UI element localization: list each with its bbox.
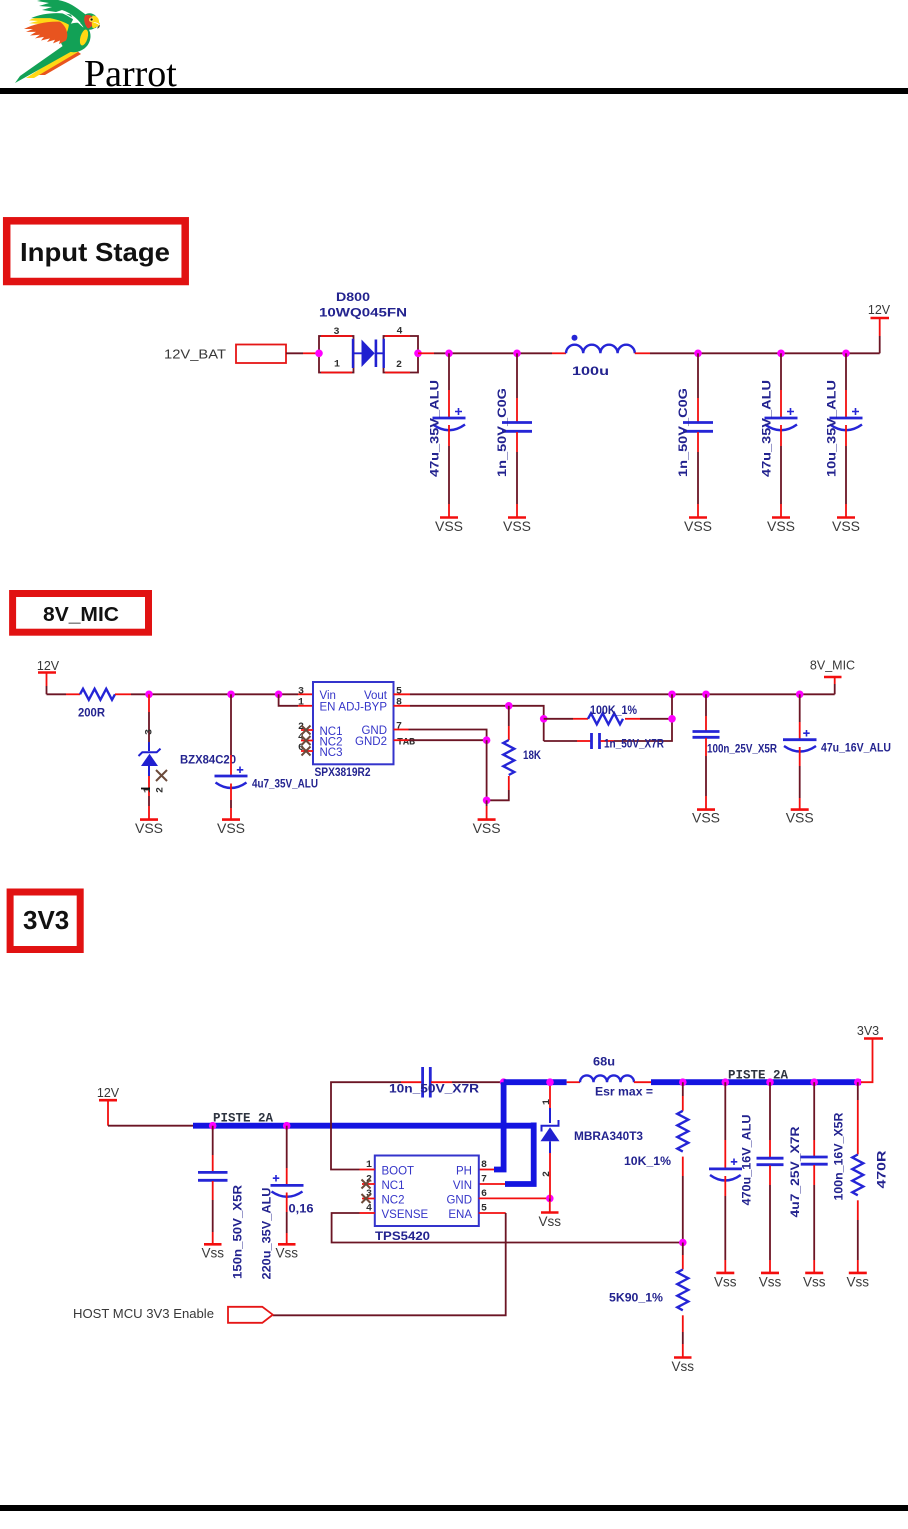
svg-text:NC1: NC1 bbox=[382, 1180, 405, 1192]
capacitor 1n_50V_C0G (second) bbox=[678, 353, 713, 517]
pin 6 GND stub bbox=[479, 1197, 497, 1199]
svg-text:5: 5 bbox=[396, 686, 402, 697]
svg-text:1n_50V_C0G: 1n_50V_C0G bbox=[678, 388, 690, 477]
node dots at D800 bbox=[315, 350, 323, 358]
svg-text:VIN: VIN bbox=[453, 1180, 472, 1192]
wire L800 to 12V port bbox=[635, 352, 650, 354]
svg-text:4u7_25V_X7R: 4u7_25V_X7R bbox=[790, 1126, 802, 1218]
ground Vss bbox=[714, 1273, 737, 1290]
tail green blade bbox=[15, 43, 74, 83]
capacitor 10u_35V_ALU bbox=[827, 353, 863, 517]
svg-text:200R: 200R bbox=[78, 708, 106, 720]
svg-text:150n_50V_X5R: 150n_50V_X5R bbox=[233, 1184, 245, 1279]
eye bbox=[89, 17, 94, 22]
svg-text:2: 2 bbox=[156, 787, 167, 793]
ground VSS bbox=[684, 518, 712, 535]
svg-text:MBRA340T3: MBRA340T3 bbox=[574, 1131, 643, 1143]
beak bbox=[94, 21, 100, 27]
svg-text:5K90_1%: 5K90_1% bbox=[609, 1293, 663, 1305]
inductor 68u bbox=[567, 1057, 654, 1099]
header rule bbox=[0, 88, 908, 94]
svg-text:8V_MIC: 8V_MIC bbox=[810, 659, 855, 673]
ground VSS bbox=[786, 810, 814, 826]
svg-text:Vin: Vin bbox=[320, 690, 336, 702]
resistor 200R bbox=[78, 689, 115, 720]
capacitor 47u_35V_ALU (second) bbox=[762, 353, 798, 517]
port HOST MCU 3V3 Enable bbox=[73, 1307, 273, 1323]
port 8V_MIC bbox=[810, 659, 855, 695]
svg-text:4u7_35V_ALU: 4u7_35V_ALU bbox=[252, 779, 318, 791]
svg-text:8: 8 bbox=[481, 1160, 487, 1171]
capacitor 1n_50V_X7R bbox=[544, 719, 672, 751]
pin 4 VSENSE stub bbox=[360, 1212, 375, 1214]
ground VSS bbox=[692, 810, 720, 826]
wire 3V3 thick rail bbox=[651, 1079, 861, 1085]
svg-text:68u: 68u bbox=[593, 1057, 615, 1069]
svg-text:Vss: Vss bbox=[714, 1275, 737, 1290]
wire 12V to PISTE rail bbox=[108, 1125, 193, 1127]
svg-text:D800: D800 bbox=[336, 292, 370, 304]
ground VSS bbox=[832, 518, 860, 535]
svg-text:VSS: VSS bbox=[135, 820, 163, 836]
footer rule bbox=[0, 1505, 908, 1511]
section title 8V_MIC bbox=[13, 594, 149, 633]
wire VSENSE feedback bbox=[332, 1213, 684, 1243]
wire D800 to L800 bbox=[418, 352, 434, 354]
svg-text:PISTE 2A: PISTE 2A bbox=[213, 1112, 274, 1126]
ground VSS bbox=[767, 518, 795, 535]
belly yellow patch bbox=[78, 29, 89, 47]
capacitor 47u_35V_ALU (first) bbox=[430, 353, 466, 517]
pin 5 ENA stub bbox=[479, 1212, 506, 1214]
svg-text:1n_50V_C0G: 1n_50V_C0G bbox=[497, 388, 509, 477]
svg-text:8V_MIC: 8V_MIC bbox=[43, 604, 119, 626]
svg-text:4: 4 bbox=[397, 327, 403, 338]
svg-text:1: 1 bbox=[298, 698, 304, 709]
svg-text:NC2: NC2 bbox=[382, 1194, 405, 1206]
svg-text:VSS: VSS bbox=[684, 518, 712, 534]
ground VSS bbox=[135, 820, 163, 836]
face yellow patch bbox=[92, 16, 99, 29]
head green bbox=[81, 13, 98, 30]
op-amp U: regulator SPX3819R2 bbox=[298, 682, 415, 779]
wing separation white line bbox=[60, 12, 84, 28]
body green bbox=[60, 23, 91, 52]
wire GND pin 7 bbox=[394, 729, 409, 731]
ground Vss bbox=[201, 1244, 224, 1260]
wire Vout (8V_MIC net) bbox=[394, 693, 411, 695]
capacitor 4u7_35V_ALU bbox=[215, 694, 319, 819]
svg-text:TAB: TAB bbox=[397, 737, 415, 748]
svg-text:VSS: VSS bbox=[435, 518, 463, 534]
capacitor 4u7_25V_X7R bbox=[757, 1082, 803, 1273]
svg-text:ENA: ENA bbox=[448, 1209, 472, 1221]
zener diode BZX84C20 bbox=[139, 694, 237, 819]
svg-text:10WQ045FN: 10WQ045FN bbox=[319, 308, 407, 320]
ground Vss bbox=[759, 1273, 782, 1290]
svg-text:8: 8 bbox=[396, 698, 402, 709]
wire GND to diode anode bbox=[497, 1197, 550, 1199]
svg-text:ADJ-BYP: ADJ-BYP bbox=[338, 701, 387, 713]
upper wing green bbox=[37, 0, 96, 29]
svg-text:47u_35V_ALU: 47u_35V_ALU bbox=[762, 380, 774, 477]
svg-text:GND2: GND2 bbox=[355, 736, 387, 748]
svg-text:TPS5420: TPS5420 bbox=[375, 1231, 430, 1243]
wire ADJ-BYP bbox=[394, 705, 411, 707]
wire 200R to SPX3819 Vin bbox=[115, 693, 131, 695]
svg-text:HOST MCU 3V3 Enable: HOST MCU 3V3 Enable bbox=[73, 1307, 214, 1321]
port 12V bbox=[37, 659, 60, 694]
svg-text:3: 3 bbox=[145, 729, 156, 735]
svg-text:Input Stage: Input Stage bbox=[20, 237, 170, 267]
svg-text:NC3: NC3 bbox=[320, 747, 343, 759]
svg-text:470u_16V_ALU: 470u_16V_ALU bbox=[742, 1115, 754, 1206]
pin 1 BOOT stub bbox=[360, 1169, 375, 1171]
svg-text:12V: 12V bbox=[37, 659, 60, 673]
section title Input Stage bbox=[7, 221, 186, 282]
diode D800 10WQ045FN bbox=[319, 292, 418, 373]
wire 12V_BAT to D800 bbox=[286, 352, 303, 354]
svg-text:47u_35V_ALU: 47u_35V_ALU bbox=[430, 380, 442, 477]
svg-text:SPX3819R2: SPX3819R2 bbox=[315, 767, 371, 779]
svg-text:7: 7 bbox=[396, 722, 402, 733]
port 12V bbox=[868, 303, 891, 353]
resistor 100K_1% bbox=[544, 705, 672, 724]
svg-text:VSS: VSS bbox=[503, 518, 531, 534]
svg-text:VSS: VSS bbox=[832, 518, 860, 534]
section title 3V3 bbox=[10, 892, 80, 950]
svg-text:VSS: VSS bbox=[692, 810, 720, 826]
svg-text:1n_50V_X7R: 1n_50V_X7R bbox=[604, 739, 665, 751]
svg-text:12V: 12V bbox=[868, 303, 891, 317]
port 12V bbox=[97, 1086, 120, 1126]
ground Vss bbox=[803, 1273, 826, 1290]
parrot logo bird bbox=[15, 0, 100, 83]
svg-text:2: 2 bbox=[542, 1171, 553, 1177]
wire PISTE 2A thick rail (VIN) bbox=[193, 1123, 534, 1129]
wire PH thick blue bbox=[494, 1082, 504, 1169]
svg-text:1: 1 bbox=[334, 360, 340, 371]
wire BOOT loop bbox=[331, 1082, 401, 1169]
ground Vss bbox=[539, 1198, 562, 1229]
wire ENA to HOST MCU bbox=[273, 1213, 506, 1315]
svg-text:Vss: Vss bbox=[539, 1214, 562, 1229]
junction dots on 8V_MIC net bbox=[668, 691, 676, 699]
ground VSS bbox=[473, 820, 501, 836]
svg-text:Vss: Vss bbox=[759, 1275, 782, 1290]
svg-text:220u_35V_ALU: 220u_35V_ALU bbox=[262, 1188, 274, 1280]
diode MBRA340T3 bbox=[541, 1082, 644, 1198]
ground Vss bbox=[847, 1273, 870, 1290]
resistor 10K_1% bbox=[624, 1082, 688, 1242]
lower wing feathers group bbox=[24, 13, 73, 44]
svg-text:VSS: VSS bbox=[767, 518, 795, 534]
svg-text:3V3: 3V3 bbox=[23, 905, 69, 935]
svg-text:BZX84C20: BZX84C20 bbox=[180, 755, 236, 767]
svg-text:VSENSE: VSENSE bbox=[382, 1209, 429, 1221]
svg-text:10u_35V_ALU: 10u_35V_ALU bbox=[827, 380, 839, 477]
svg-text:12V: 12V bbox=[97, 1086, 120, 1100]
svg-text:Vss: Vss bbox=[847, 1275, 870, 1290]
svg-text:PISTE 2A: PISTE 2A bbox=[728, 1069, 789, 1083]
svg-text:3: 3 bbox=[298, 686, 304, 697]
tail yellow stripe bbox=[26, 48, 78, 78]
svg-text:3V3: 3V3 bbox=[857, 1024, 879, 1038]
svg-text:BOOT: BOOT bbox=[382, 1165, 415, 1177]
capacitor 47u_16V_ALU bbox=[783, 694, 891, 809]
capacitor 220u_35V_ALU bbox=[262, 1126, 314, 1280]
ground Vss bbox=[275, 1244, 298, 1260]
junction dots on 12V wire bbox=[145, 691, 153, 699]
wire GND2/TAB bbox=[394, 739, 409, 741]
capacitor 10n_50V_X7R bbox=[389, 1067, 504, 1098]
capacitor 150n_50V_X5R bbox=[198, 1126, 245, 1279]
svg-text:Vss: Vss bbox=[672, 1359, 695, 1374]
capacitor 100n_25V_X5R bbox=[693, 694, 778, 809]
wire PH node to inductor bbox=[504, 1079, 567, 1085]
tail orange stripe bbox=[38, 51, 81, 75]
svg-text:100u: 100u bbox=[572, 366, 609, 378]
svg-text:VSS: VSS bbox=[473, 820, 501, 836]
resistor 18K bbox=[487, 706, 542, 801]
svg-text:1: 1 bbox=[542, 1099, 553, 1105]
wire VIN thick blue bbox=[505, 1123, 534, 1185]
wire 12V to R 200R bbox=[47, 693, 67, 695]
wire EN from 12V rail bbox=[279, 694, 298, 706]
svg-text:0,16: 0,16 bbox=[289, 1204, 314, 1216]
svg-text:10K_1%: 10K_1% bbox=[624, 1156, 671, 1168]
svg-text:470R: 470R bbox=[877, 1150, 889, 1189]
junction node dots on 12V rail bbox=[445, 350, 453, 358]
wire to ground bbox=[486, 740, 488, 800]
capacitor 470u_16V_ALU bbox=[709, 1082, 754, 1273]
resistor 470R bbox=[852, 1082, 888, 1273]
svg-text:100n_16V_X5R: 100n_16V_X5R bbox=[834, 1112, 846, 1201]
transistor U: regulator TPS5420 bbox=[360, 1156, 506, 1244]
ground VSS bbox=[435, 518, 463, 535]
inductor 100u bbox=[566, 335, 635, 378]
ground VSS bbox=[217, 820, 245, 836]
wire RC to 8V_MIC net bbox=[671, 694, 673, 719]
svg-text:GND: GND bbox=[446, 1194, 472, 1206]
svg-text:PH: PH bbox=[456, 1165, 472, 1177]
ground Vss bbox=[672, 1358, 695, 1375]
svg-text:100n_25V_X5R: 100n_25V_X5R bbox=[707, 744, 778, 756]
svg-text:3: 3 bbox=[334, 327, 340, 338]
capacitor 100n_16V_X5R bbox=[801, 1082, 846, 1273]
NC1 NC2 stubs with X bbox=[362, 1184, 375, 1199]
svg-text:7: 7 bbox=[481, 1175, 487, 1186]
port 3V3 bbox=[857, 1024, 883, 1082]
svg-text:100K_1%: 100K_1% bbox=[590, 705, 637, 717]
svg-text:10n_50V_X7R: 10n_50V_X7R bbox=[389, 1084, 480, 1096]
node PH bbox=[500, 1078, 508, 1086]
svg-text:18K: 18K bbox=[523, 750, 542, 762]
svg-text:VSS: VSS bbox=[786, 810, 814, 826]
svg-text:Vss: Vss bbox=[275, 1246, 298, 1261]
svg-text:Vss: Vss bbox=[803, 1275, 826, 1290]
svg-text:Vss: Vss bbox=[201, 1246, 224, 1261]
svg-text:47u_16V_ALU: 47u_16V_ALU bbox=[821, 743, 891, 755]
resistor 5K90_1% bbox=[609, 1243, 688, 1358]
ground VSS bbox=[503, 518, 531, 535]
NC pin stubs with X bbox=[301, 730, 313, 751]
capacitor 1n_50V_C0G (first) bbox=[497, 353, 532, 517]
svg-text:2: 2 bbox=[396, 360, 402, 371]
svg-text:Esr max =: Esr max = bbox=[595, 1087, 653, 1099]
svg-text:12V_BAT: 12V_BAT bbox=[164, 348, 226, 362]
cheek red patch bbox=[84, 15, 94, 29]
svg-text:VSS: VSS bbox=[217, 820, 245, 836]
svg-text:Vout: Vout bbox=[364, 690, 388, 702]
svg-text:EN: EN bbox=[320, 701, 336, 713]
